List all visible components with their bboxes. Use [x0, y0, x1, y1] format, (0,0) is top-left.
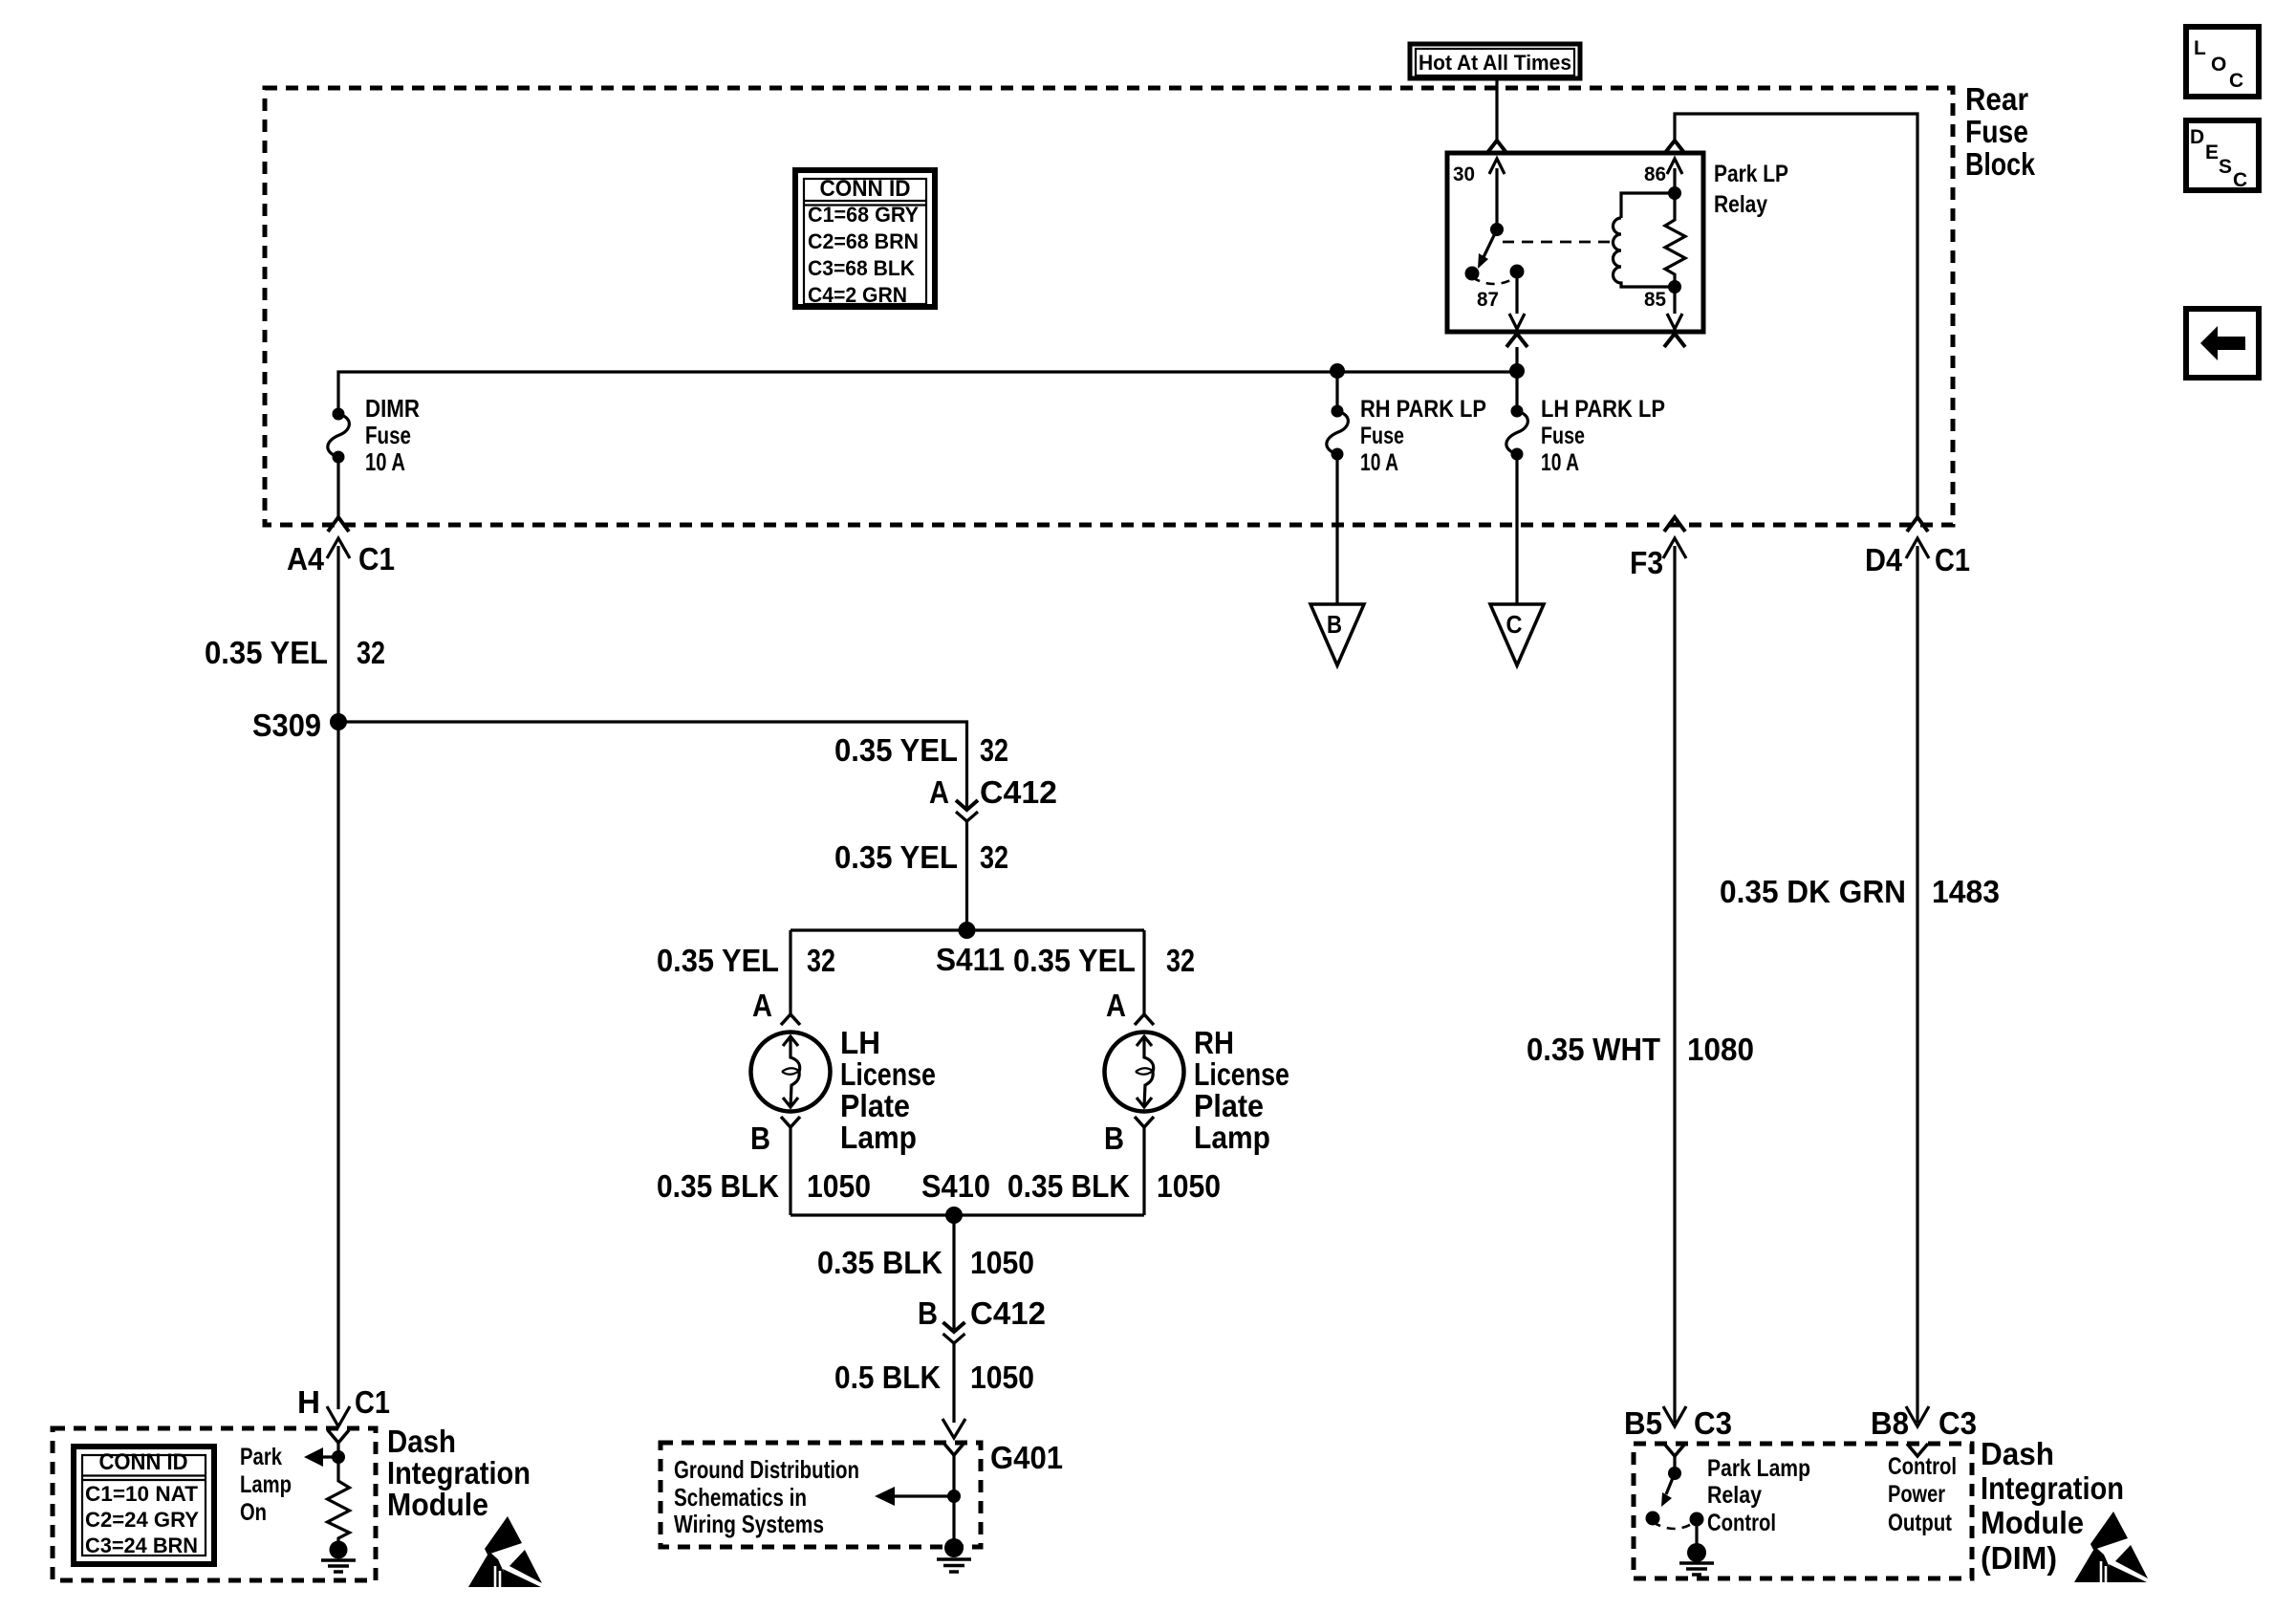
- internal ground symbol: [330, 1541, 348, 1559]
- wire LH lamp down to return bus: [789, 1127, 791, 1215]
- svg-text:S410: S410: [921, 1168, 990, 1204]
- conn id table (DIM): [74, 1447, 214, 1564]
- back arrow nav box: [2186, 309, 2259, 378]
- svg-text:A: A: [929, 774, 949, 810]
- relay Park LP Relay box: [1447, 153, 1703, 332]
- svg-text:D: D: [2190, 126, 2204, 148]
- svg-text:B5: B5: [1624, 1405, 1662, 1441]
- switch right contact dot: [1510, 265, 1525, 279]
- svg-text:Block: Block: [1965, 146, 2036, 182]
- svg-text:0.35 YEL: 0.35 YEL: [205, 635, 328, 670]
- svg-text:Dash: Dash: [387, 1424, 456, 1459]
- svg-text:86: 86: [1644, 163, 1666, 185]
- svg-text:C: C: [2233, 169, 2247, 191]
- ESD symbol left: [468, 1516, 542, 1587]
- svg-text:0.35 BLK: 0.35 BLK: [657, 1168, 779, 1204]
- svg-text:C4=2 GRN: C4=2 GRN: [808, 283, 907, 307]
- pin 30 wire with up arrow: [1489, 159, 1505, 174]
- svg-text:F3: F3: [1630, 545, 1663, 580]
- svg-text:Dash: Dash: [1981, 1436, 2054, 1471]
- svg-text:C2=68 BRN: C2=68 BRN: [808, 229, 919, 253]
- wire to internal ground: [1695, 1519, 1698, 1545]
- svg-text:0.35 YEL: 0.35 YEL: [1013, 943, 1136, 978]
- svg-text:RH: RH: [1194, 1025, 1234, 1060]
- svg-text:RH PARK LP: RH PARK LP: [1360, 396, 1486, 423]
- relay coil node dot bottom: [1668, 280, 1681, 294]
- wire RH fuse down to triangle B: [1335, 454, 1338, 604]
- wire DIMR fuse to A4: [336, 457, 339, 517]
- wire LH branch down to lamp: [789, 930, 791, 1015]
- svg-text:H: H: [297, 1384, 320, 1420]
- arrow to ground distribution: [893, 1494, 954, 1497]
- svg-text:C1=68 GRY: C1=68 GRY: [808, 203, 919, 227]
- svg-text:0.35 YEL: 0.35 YEL: [657, 943, 779, 978]
- svg-text:C2=24 GRY: C2=24 GRY: [85, 1508, 199, 1532]
- svg-text:License: License: [840, 1056, 936, 1092]
- power source box Hot At All Times: [1410, 44, 1580, 78]
- svg-text:Park LP: Park LP: [1714, 161, 1788, 187]
- fuse LH PARK LP 10 A: [1511, 405, 1524, 418]
- svg-text:LH: LH: [840, 1025, 880, 1060]
- pin 86 wire with up arrow: [1667, 159, 1682, 174]
- connector chevron B8 inside DIM: [1907, 1444, 1928, 1456]
- ground G401 symbol: [944, 1538, 964, 1557]
- svg-text:1050: 1050: [970, 1245, 1034, 1280]
- svg-text:Park Lamp: Park Lamp: [1707, 1455, 1810, 1482]
- connector H C1 into DIM left: [327, 1406, 350, 1426]
- arrow into ground connector: [942, 1419, 965, 1438]
- svg-text:32: 32: [980, 732, 1008, 768]
- wire S410 down to C412: [952, 1215, 955, 1329]
- connector F3 at fuse block bottom: [1664, 517, 1685, 532]
- svg-text:D4: D4: [1865, 542, 1903, 577]
- svg-text:Plate: Plate: [1194, 1088, 1264, 1123]
- connector A4 C1 at fuse block bottom: [328, 517, 349, 532]
- wire A4 down to S309 and on to DIM: [336, 546, 339, 1409]
- wire C412 down to S411: [965, 821, 968, 930]
- switch dashed travel arc: [1653, 1522, 1695, 1529]
- svg-text:Lamp: Lamp: [240, 1471, 292, 1498]
- svg-text:1483: 1483: [1932, 874, 2000, 909]
- arrow park lamp on: [321, 1455, 338, 1458]
- svg-text:Rear: Rear: [1965, 81, 2028, 117]
- svg-text:Schematics in: Schematics in: [674, 1483, 807, 1512]
- pin 87 wire with down arrow: [1515, 272, 1518, 314]
- connector chevron below relay pin 87: [1506, 334, 1527, 347]
- svg-text:Lamp: Lamp: [840, 1120, 917, 1155]
- svg-text:Fuse: Fuse: [1965, 114, 2028, 149]
- svg-text:1050: 1050: [1157, 1168, 1221, 1204]
- svg-text:S309: S309: [252, 707, 321, 743]
- svg-text:Park: Park: [240, 1444, 282, 1470]
- svg-text:0.35 BLK: 0.35 BLK: [817, 1245, 942, 1280]
- relay resistor: [1665, 193, 1685, 287]
- connector chevron B5 inside DIM: [1664, 1444, 1685, 1456]
- svg-text:L: L: [2194, 37, 2206, 59]
- junction node at RH PARK LP fuse: [1330, 363, 1345, 379]
- svg-text:B: B: [1104, 1120, 1124, 1156]
- pin 85 wire with down arrow: [1673, 287, 1676, 314]
- splice S309: [330, 713, 347, 730]
- conn id table (rear fuse block): [795, 170, 935, 307]
- connector D4 C1 at fuse block bottom: [1907, 517, 1928, 532]
- LOC nav box: [2186, 27, 2259, 97]
- connector chevron at relay pin 86 entry: [1664, 141, 1685, 154]
- junction dot ground arrow: [947, 1490, 961, 1503]
- connector chevron G401: [943, 1443, 964, 1455]
- svg-text:30: 30: [1453, 163, 1475, 185]
- switch dashed travel arc: [1472, 277, 1516, 284]
- svg-text:0.35 WHT: 0.35 WHT: [1527, 1032, 1660, 1067]
- svg-text:Fuse: Fuse: [365, 421, 411, 449]
- svg-text:85: 85: [1644, 289, 1666, 311]
- dash integration module dashed box left: [53, 1428, 376, 1580]
- svg-text:CONN ID: CONN ID: [99, 1449, 188, 1475]
- svg-text:License: License: [1194, 1056, 1289, 1092]
- svg-text:Hot At All Times: Hot At All Times: [1419, 51, 1571, 75]
- svg-text:Fuse: Fuse: [1541, 423, 1585, 449]
- svg-text:B: B: [918, 1295, 938, 1331]
- svg-text:C3: C3: [1939, 1405, 1977, 1441]
- connector chevron into LH lamp: [781, 1014, 800, 1025]
- relay coil: [1621, 193, 1675, 218]
- connector chevron out of LH lamp: [781, 1117, 800, 1127]
- svg-text:1050: 1050: [807, 1168, 871, 1204]
- svg-text:Integration: Integration: [1981, 1470, 2124, 1506]
- relay coil node dot top: [1668, 186, 1681, 200]
- dash integration module (DIM) dashed box right: [1634, 1444, 1972, 1578]
- off-page triangle connector C: [1490, 604, 1544, 665]
- svg-text:Control: Control: [1707, 1510, 1776, 1536]
- svg-text:C1: C1: [1935, 542, 1970, 577]
- svg-text:C3=68 BLK: C3=68 BLK: [808, 256, 915, 280]
- svg-text:0.35 YEL: 0.35 YEL: [834, 732, 958, 768]
- svg-text:1050: 1050: [970, 1360, 1034, 1395]
- lamp RH License Plate Lamp: [1105, 1033, 1184, 1112]
- svg-text:Control: Control: [1888, 1453, 1957, 1480]
- lamp LH License Plate Lamp: [751, 1033, 831, 1112]
- svg-text:10 A: 10 A: [1541, 449, 1579, 476]
- svg-text:Relay: Relay: [1714, 191, 1767, 218]
- svg-text:B: B: [750, 1120, 770, 1156]
- dashed mechanical link switch to coil: [1503, 241, 1612, 244]
- svg-text:0.35 YEL: 0.35 YEL: [834, 839, 958, 875]
- switch left contact dot: [1646, 1512, 1660, 1526]
- svg-text:C1: C1: [358, 541, 395, 577]
- wire D4 down to B8: [1916, 546, 1918, 1423]
- svg-text:0.35 BLK: 0.35 BLK: [1007, 1168, 1130, 1204]
- switch right contact dot: [1690, 1512, 1704, 1527]
- wire RH lamp down to return bus: [1142, 1127, 1145, 1215]
- svg-text:Ground Distribution: Ground Distribution: [674, 1455, 859, 1484]
- svg-text:32: 32: [357, 635, 385, 670]
- svg-text:S411: S411: [936, 942, 1005, 977]
- svg-text:Fuse: Fuse: [1360, 423, 1404, 449]
- off-page triangle connector B: [1310, 604, 1364, 665]
- svg-text:C412: C412: [970, 1295, 1046, 1331]
- svg-text:C3: C3: [1694, 1405, 1732, 1441]
- wire LH fuse down to triangle C: [1515, 454, 1518, 604]
- svg-text:32: 32: [1166, 943, 1195, 978]
- svg-text:87: 87: [1477, 289, 1499, 311]
- svg-text:Integration: Integration: [387, 1455, 531, 1490]
- svg-text:B: B: [1327, 610, 1342, 639]
- lamp feed bus: [791, 928, 1144, 931]
- svg-text:Wiring Systems: Wiring Systems: [674, 1510, 824, 1538]
- svg-text:A4: A4: [287, 541, 325, 577]
- svg-text:10 A: 10 A: [1360, 449, 1398, 476]
- wire S309 over and down to C412: [338, 722, 967, 807]
- svg-text:Lamp: Lamp: [1194, 1120, 1270, 1155]
- wire F3 down to B5: [1673, 546, 1676, 1423]
- svg-text:(DIM): (DIM): [1981, 1540, 2057, 1576]
- wire hot feed down to relay pin 30: [1495, 78, 1498, 140]
- svg-text:Relay: Relay: [1707, 1482, 1762, 1509]
- connector chevron out of RH lamp: [1135, 1117, 1154, 1127]
- svg-text:LH PARK LP: LH PARK LP: [1541, 396, 1665, 423]
- svg-text:S: S: [2219, 156, 2232, 178]
- svg-text:C: C: [1506, 610, 1523, 639]
- svg-text:0.35 DK GRN: 0.35 DK GRN: [1720, 874, 1906, 909]
- svg-text:A: A: [1106, 988, 1126, 1023]
- fuse DIMR 10 A: [333, 408, 345, 421]
- wire C412 down to G401: [952, 1343, 955, 1423]
- DESC nav box: [2186, 120, 2259, 190]
- svg-text:Plate: Plate: [840, 1088, 910, 1123]
- wire down to ground: [952, 1455, 955, 1540]
- junction dot park lamp on: [332, 1450, 345, 1464]
- wire bus from DIMR fuse to LH PARK LP fuse: [338, 372, 1517, 414]
- rear fuse block dashed box: [265, 88, 1953, 525]
- svg-text:A: A: [752, 988, 772, 1023]
- ground distribution dashed box: [661, 1443, 981, 1547]
- junction node at LH PARK LP fuse: [1509, 363, 1525, 379]
- park lamp relay switch arm: [1666, 1473, 1675, 1494]
- ESD symbol right: [2074, 1512, 2148, 1582]
- svg-text:CONN ID: CONN ID: [820, 176, 911, 202]
- switch pivot dot: [1490, 223, 1504, 236]
- svg-text:On: On: [240, 1499, 267, 1526]
- svg-text:B8: B8: [1871, 1405, 1909, 1441]
- svg-text:Output: Output: [1888, 1510, 1953, 1536]
- fuse RH PARK LP 10 A: [1335, 372, 1338, 411]
- internal ground symbol: [1687, 1543, 1706, 1562]
- svg-text:32: 32: [980, 839, 1008, 875]
- park lamp relay switch pivot dot: [1668, 1467, 1681, 1480]
- svg-text:G401: G401: [990, 1440, 1063, 1475]
- svg-text:0.5 BLK: 0.5 BLK: [834, 1360, 941, 1395]
- wire RH branch down to lamp: [1142, 930, 1145, 1015]
- svg-text:C1: C1: [355, 1384, 390, 1420]
- svg-text:E: E: [2205, 141, 2219, 163]
- connector chevron below relay pin 85: [1664, 334, 1685, 347]
- svg-text:32: 32: [807, 943, 835, 978]
- switch left contact dot: [1465, 267, 1480, 281]
- connector chevron at relay pin 30 entry: [1486, 141, 1507, 154]
- svg-text:1080: 1080: [1687, 1032, 1754, 1067]
- wire pin 87 down to bus: [1515, 347, 1518, 411]
- splice S411: [959, 922, 976, 939]
- connector B5 C3 into DIM: [1663, 1406, 1686, 1426]
- svg-text:Power: Power: [1888, 1481, 1945, 1508]
- ground return bus: [791, 1213, 1144, 1216]
- svg-text:10 A: 10 A: [365, 447, 405, 476]
- internal resistor: [328, 1457, 350, 1541]
- svg-text:Module: Module: [1981, 1505, 2084, 1540]
- svg-text:Module: Module: [387, 1487, 488, 1522]
- svg-text:C3=24 BRN: C3=24 BRN: [85, 1534, 198, 1557]
- wire pin 86 up and over to D4 drop: [1675, 114, 1917, 517]
- svg-text:C1=10 NAT: C1=10 NAT: [85, 1482, 199, 1506]
- svg-text:C412: C412: [980, 774, 1057, 810]
- connector chevron into RH lamp: [1135, 1014, 1154, 1025]
- connector B8 C3 into DIM: [1906, 1406, 1929, 1426]
- svg-text:DIMR: DIMR: [365, 394, 420, 423]
- svg-text:C: C: [2229, 70, 2243, 92]
- switch arm: [1484, 229, 1497, 257]
- connector chevron H inside DIM: [328, 1430, 349, 1443]
- svg-text:O: O: [2211, 54, 2226, 76]
